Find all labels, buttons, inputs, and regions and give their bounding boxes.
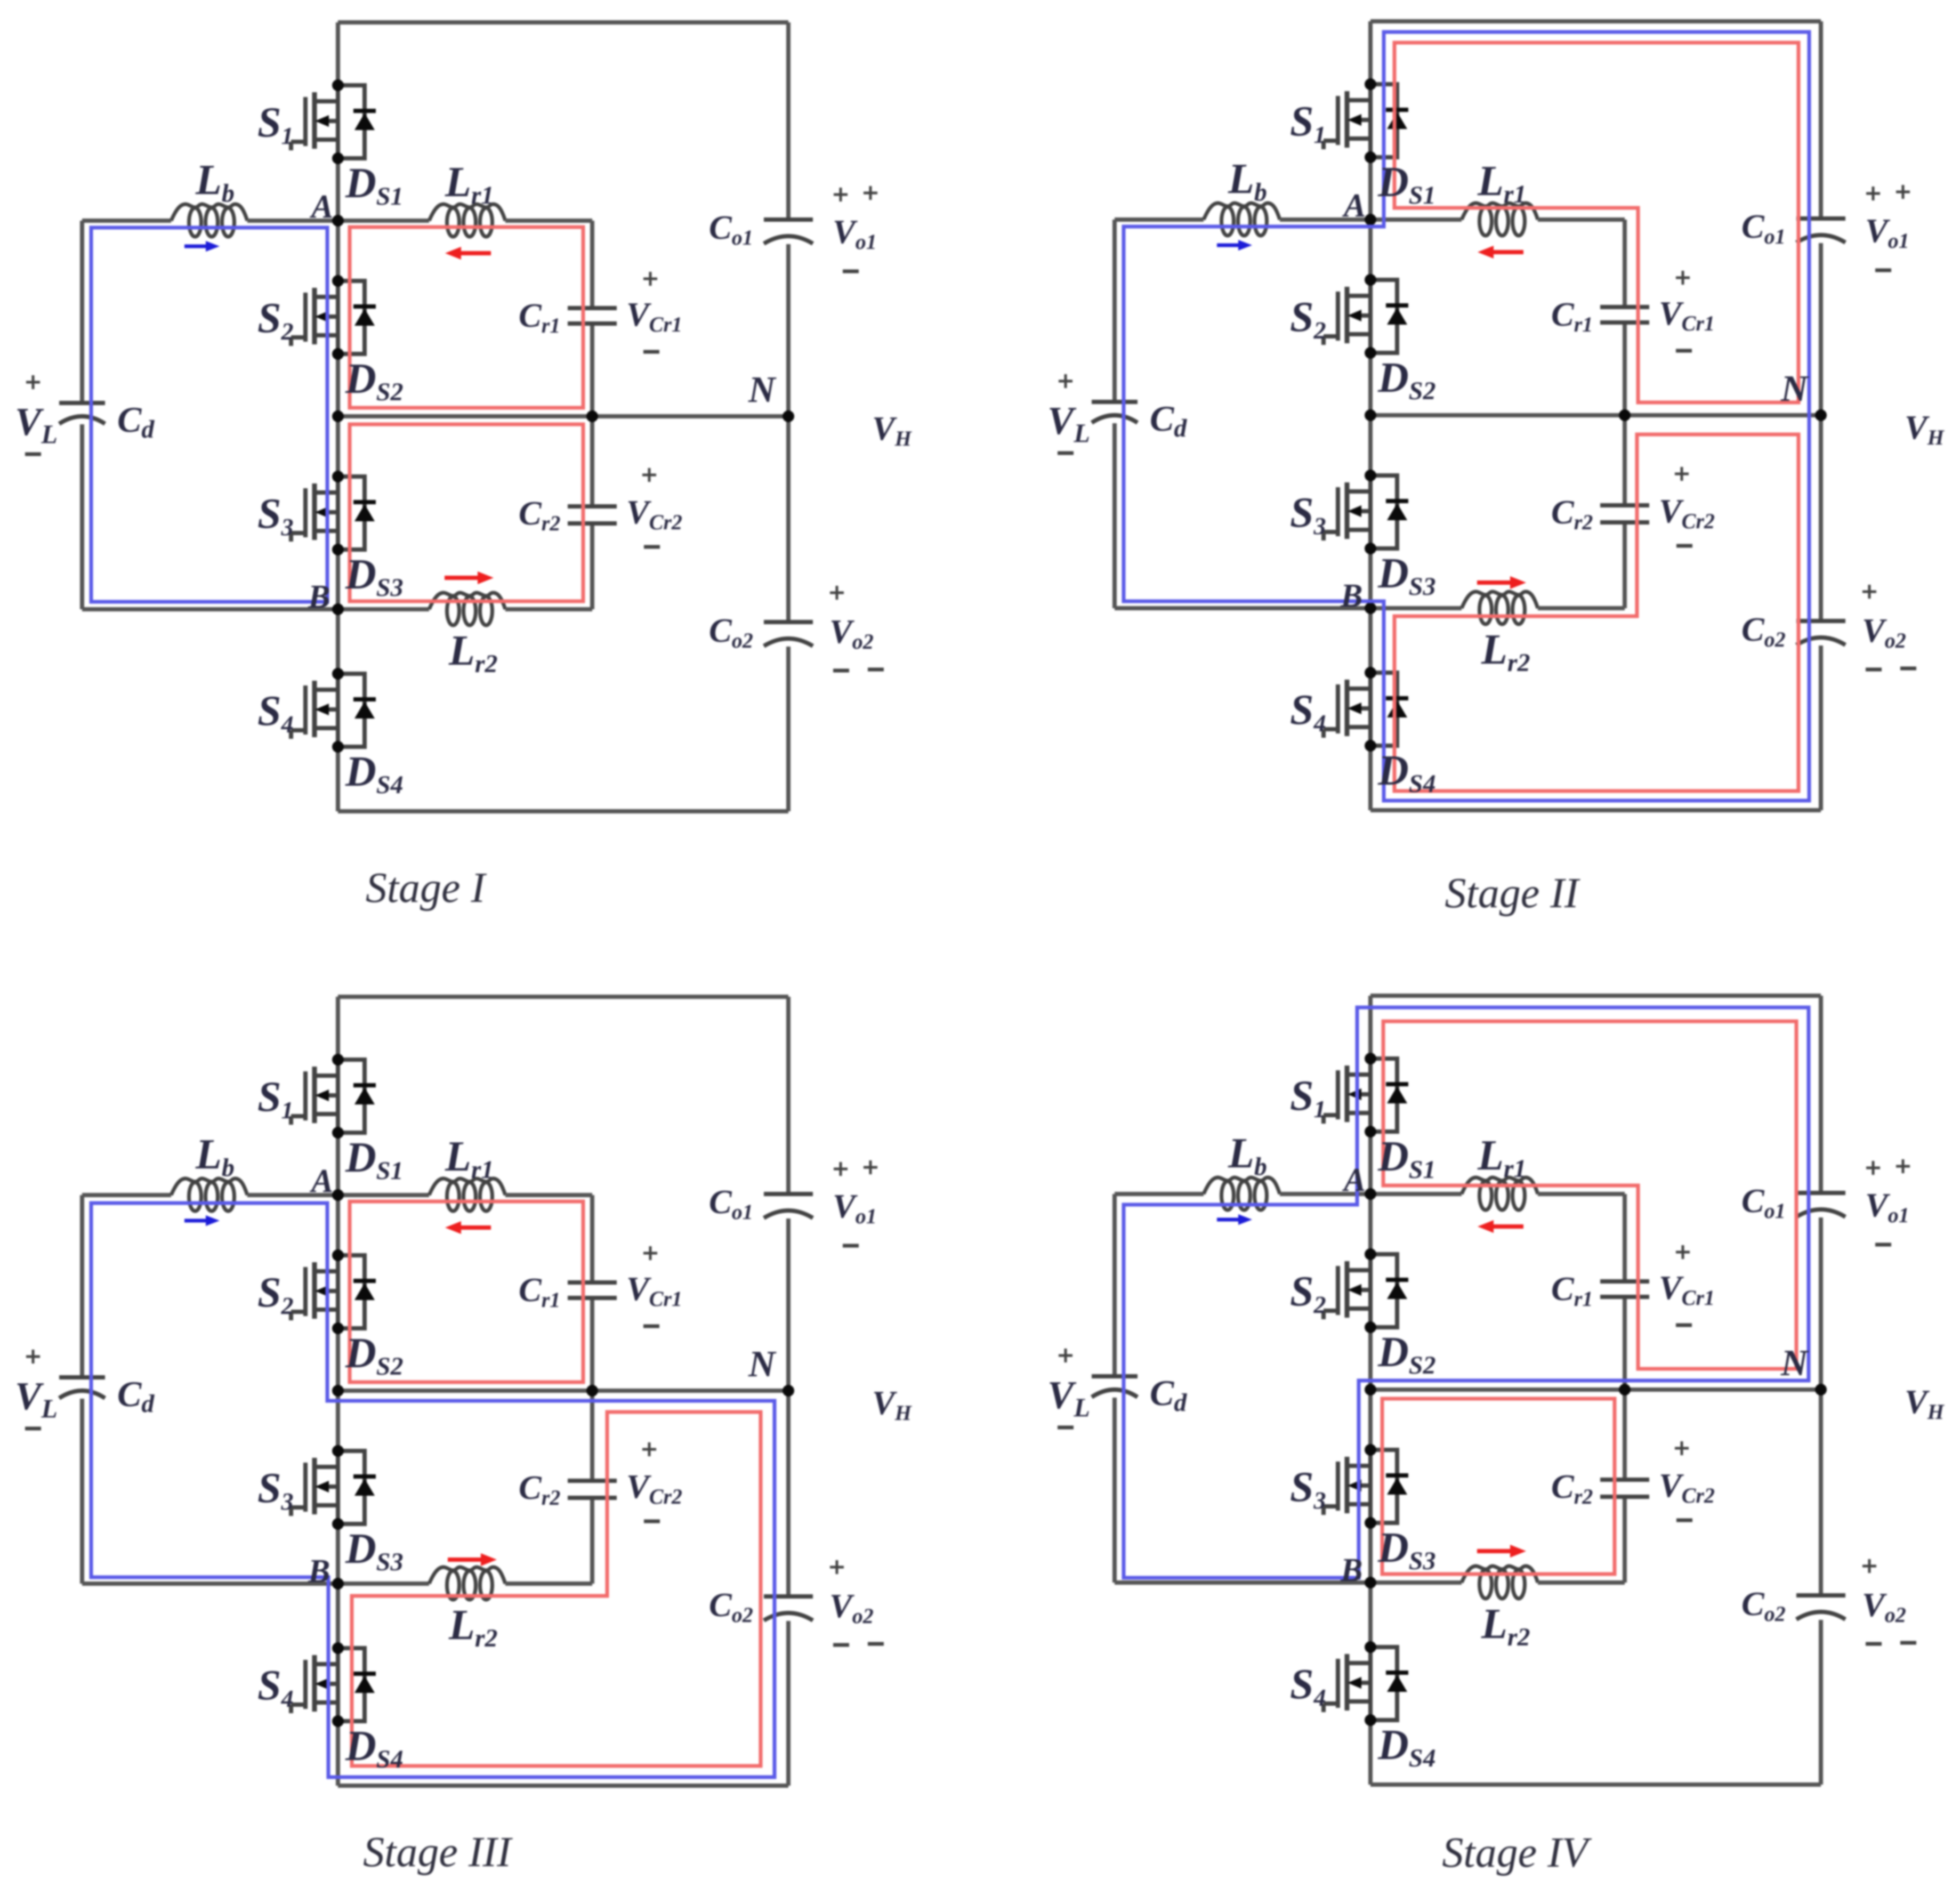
Stage I: main bus wire segments [336, 22, 340, 85]
Stage IV: top rail wire [1370, 994, 1821, 998]
body diode DS1 (Stage IV) [1370, 1059, 1408, 1132]
svg-text:A: A [1342, 1162, 1366, 1198]
Stage IV: output capacitor Co1 [1796, 1191, 1845, 1195]
Stage III: VH plus [864, 1160, 877, 1174]
Stage III: left bus wire VL (lower) [80, 1399, 84, 1584]
Stage IV: resonant inductor Lr1 [1462, 1177, 1538, 1194]
Stage IV: wire Cr2 to node N [1623, 1390, 1627, 1478]
Stage III: wire Cr2 to node N [590, 1391, 594, 1479]
Stage III: Vo1 plus [834, 1162, 848, 1176]
Stage I: node N right-bus junction [783, 410, 794, 422]
Stage I: VH minus [868, 668, 884, 672]
junction dot S1 (Stage II) drain [1365, 78, 1376, 90]
Stage I: right bus wire VH (upper) [786, 22, 791, 217]
Stage II: resonant capacitor Cr1 [1600, 305, 1649, 309]
svg-text:A: A [1342, 188, 1366, 224]
Stage II: VCr2 minus [1676, 544, 1692, 548]
Stage I: red resonant loop 2 [350, 424, 583, 601]
junction dot S2 (Stage IV) source [1365, 1321, 1376, 1333]
Stage III: wire Lb to node A [247, 1193, 338, 1197]
transistor S1 (Stage III) [291, 1060, 338, 1133]
svg-text:A: A [309, 1163, 333, 1199]
body diode DS1 (Stage I) [338, 85, 376, 158]
Stage III: right bus wire VH (upper) [786, 997, 791, 1192]
Stage IV: input capacitor Cd / source VL [1092, 1374, 1138, 1378]
Stage III: red resonant loop 1 [350, 1201, 583, 1382]
Stage IV: red arrow loop 1 [1494, 1224, 1523, 1229]
Stage III: red resonant loop 2 [352, 1412, 761, 1766]
transistor S3 (Stage II) [1324, 475, 1370, 548]
body diode DS4 (Stage III) [338, 1648, 376, 1721]
Stage I: VCr2 minus [644, 545, 660, 549]
junction dot S1 (Stage I) drain [332, 79, 344, 91]
transistor S2 (Stage IV) [1324, 1254, 1370, 1327]
junction dot S2 (Stage I) drain [332, 275, 344, 287]
Stage IV: left bus wire VL (lower) [1112, 1398, 1117, 1583]
Stage I: left bus wire VL (upper) [80, 221, 84, 401]
Stage II: Vo2 plus [1862, 585, 1876, 599]
Stage IV: VH minus [1900, 1641, 1916, 1645]
Stage IV: node N bus junction [1365, 1384, 1376, 1395]
Stage II: top rail wire [1370, 19, 1821, 23]
Stage I: blue current arrow [184, 245, 206, 248]
Stage II: VH minus [1900, 667, 1916, 671]
Stage IV: wire Lr2 to Cr2 [1538, 1580, 1625, 1585]
Stage I: wire Cr1 to node N [590, 326, 594, 416]
body diode DS3 (Stage IV) [1370, 1450, 1408, 1523]
Stage II: bottom rail wire [1370, 808, 1821, 812]
Stage I: red arrow loop 1 [461, 251, 491, 255]
Stage II: VL minus [1058, 451, 1074, 455]
Stage I: wire Lr2 to Cr2 [505, 607, 592, 611]
body diode DS4 (Stage II) [1370, 673, 1408, 746]
Stage II: wire Lr1 to Cr1 [1538, 217, 1625, 222]
Stage IV: node A junction [1365, 1188, 1376, 1200]
Stage I: right bus wire VH (middle) [786, 244, 791, 620]
Stage I: input capacitor Cd / source VL [59, 401, 105, 405]
Stage III: wire Lr1 to Cr1 [505, 1193, 592, 1197]
Stage II: VL plus [1059, 374, 1072, 388]
transistor S2 (Stage II) [1324, 280, 1370, 353]
Stage III: output capacitor Co2 [764, 1594, 813, 1599]
Stage IV: wire Cr1 to node N [1623, 1299, 1627, 1390]
Stage II: red arrow loop 2 [1477, 580, 1510, 585]
Stage IV: boost inductor Lb [1204, 1177, 1280, 1194]
junction dot S1 (Stage III) drain [332, 1054, 344, 1066]
Stage I: VCr1 plus [643, 272, 657, 286]
body diode DS2 (Stage III) [338, 1255, 376, 1328]
junction dot S3 (Stage II) drain [1365, 470, 1376, 481]
Stage II: blue input current loop [1124, 32, 1809, 801]
Stage III: output capacitor Co1 [764, 1192, 813, 1196]
Stage III: resonant inductor Lr1 [429, 1179, 505, 1195]
svg-text:Stage IV: Stage IV [1442, 1829, 1592, 1876]
Stage I: node N rail wire [338, 414, 788, 418]
transistor S4 (Stage II) [1324, 673, 1370, 746]
svg-text:N: N [1780, 1343, 1809, 1384]
Stage I: node A junction [332, 215, 344, 227]
Stage IV: right bus wire VH (lower) [1819, 1620, 1823, 1785]
Stage II: node N right-bus junction [1815, 409, 1827, 421]
Stage IV: node N Cr junction [1619, 1384, 1631, 1395]
svg-text:B: B [308, 1553, 330, 1590]
svg-text:Stage II: Stage II [1445, 870, 1580, 917]
junction dot S2 (Stage III) drain [332, 1249, 344, 1261]
Stage III: VCr1 minus [643, 1325, 659, 1328]
body diode DS3 (Stage I) [338, 477, 376, 550]
Stage I: VL plus [26, 375, 40, 389]
Stage IV: resonant capacitor Cr1 [1600, 1279, 1649, 1284]
junction dot S1 (Stage III) source [332, 1127, 344, 1139]
transistor S1 (Stage II) [1324, 84, 1370, 157]
Stage I: output capacitor Co1 [764, 217, 813, 222]
body diode DS1 (Stage II) [1370, 84, 1408, 157]
Stage III: wire node B to VL [82, 1582, 338, 1586]
Stage II: Vo1 plus [1866, 187, 1880, 200]
transistor S4 (Stage I) [291, 674, 338, 747]
junction dot S2 (Stage II) drain [1365, 274, 1376, 286]
Stage III: wire Lr2 to Cr2 [505, 1582, 592, 1586]
junction dot S4 (Stage IV) source [1365, 1714, 1376, 1726]
Stage I: wire node B to Lr2 [338, 607, 429, 611]
body diode DS2 (Stage II) [1370, 280, 1408, 353]
Stage II: node A junction [1365, 214, 1376, 225]
Stage II: node N Cr junction [1619, 409, 1631, 421]
Stage I: bottom rail wire [338, 809, 788, 813]
junction dot S2 (Stage III) source [332, 1322, 344, 1334]
svg-text:N: N [748, 1344, 777, 1385]
Stage II: output capacitor Co2 [1796, 619, 1845, 623]
Stage II: wire Cr2 to node N [1623, 415, 1627, 503]
Stage III: red arrow loop 2 [448, 1558, 481, 1562]
transistor S1 (Stage IV) [1324, 1059, 1370, 1132]
Stage III: Vo2 plus [830, 1560, 844, 1574]
Stage II: output capacitor Co1 [1796, 216, 1845, 221]
Stage III: blue input current loop [91, 1203, 775, 1777]
Stage I: node B junction [332, 603, 344, 615]
junction dot S2 (Stage I) source [332, 348, 344, 360]
Stage II: red arrow loop 1 [1494, 250, 1523, 254]
Stage IV: Vo2 plus [1862, 1559, 1876, 1573]
Stage II: wire node A to Lr1 [1370, 217, 1462, 222]
Stage III: resonant capacitor Cr1 [568, 1280, 617, 1285]
Stage III: node N bus junction [332, 1385, 344, 1397]
junction dot S3 (Stage II) source [1365, 543, 1376, 554]
junction dot S3 (Stage IV) source [1365, 1517, 1376, 1529]
junction dot S4 (Stage II) drain [1365, 667, 1376, 679]
Stage II: red resonant loop 1 [1394, 43, 1798, 402]
Stage II: input capacitor Cd / source VL [1092, 400, 1138, 404]
Stage I: wire Lb to node A [247, 219, 338, 223]
Stage I: left bus wire VL (lower) [80, 424, 84, 609]
Stage II: wire node B to VL [1115, 606, 1370, 610]
Stage II: blue current arrow [1217, 244, 1238, 247]
Stage I: resonant inductor Lr2 [429, 593, 505, 609]
body diode DS2 (Stage I) [338, 281, 376, 354]
Stage IV: VL plus [1059, 1349, 1072, 1362]
svg-text:N: N [748, 369, 777, 410]
Stage III: resonant inductor Lr2 [429, 1567, 505, 1584]
Stage I: wire VL to Lb [82, 219, 171, 223]
Stage IV: main bus wire segments [1368, 996, 1373, 1059]
Stage III: VL minus [25, 1427, 41, 1431]
transistor S4 (Stage III) [291, 1648, 338, 1721]
transistor S2 (Stage III) [291, 1255, 338, 1328]
body diode DS3 (Stage II) [1370, 475, 1408, 548]
svg-text:N: N [1780, 368, 1809, 409]
junction dot S4 (Stage III) source [332, 1715, 344, 1727]
Stage I: top rail wire [338, 20, 788, 25]
junction dot S1 (Stage II) source [1365, 151, 1376, 163]
Stage IV: red resonant loop 2 [1382, 1399, 1615, 1574]
Stage I: red arrow loop 2 [445, 576, 478, 580]
Stage II: left bus wire VL (upper) [1112, 220, 1117, 400]
Stage II: Vo2 minus [1866, 668, 1882, 672]
Stage IV: wire node B to Lr2 [1370, 1580, 1462, 1585]
junction dot S4 (Stage I) drain [332, 668, 344, 680]
Stage I: blue input current loop [91, 228, 327, 602]
junction dot S4 (Stage II) source [1365, 740, 1376, 752]
Stage IV: red resonant loop 1 [1383, 1021, 1796, 1369]
junction dot S2 (Stage IV) drain [1365, 1248, 1376, 1260]
Stage IV: output capacitor Co2 [1796, 1593, 1845, 1598]
junction dot S4 (Stage I) source [332, 741, 344, 753]
Stage II: VCr2 plus [1675, 467, 1689, 481]
Stage I: VCr2 plus [642, 468, 656, 482]
svg-text:A: A [309, 189, 333, 225]
Stage III: input capacitor Cd / source VL [59, 1375, 105, 1379]
junction dot S4 (Stage IV) drain [1365, 1641, 1376, 1653]
Stage IV: blue current arrow [1217, 1218, 1238, 1222]
Stage III: right bus wire VH (lower) [786, 1621, 791, 1786]
Stage II: right bus wire VH (upper) [1819, 21, 1823, 216]
Stage III: wire node A to Lr1 [338, 1193, 429, 1197]
junction dot S1 (Stage I) source [332, 152, 344, 164]
Stage IV: Vo1 minus [1875, 1243, 1891, 1247]
Stage I: resonant inductor Lr1 [429, 204, 505, 221]
Stage II: resonant capacitor Cr2 [1600, 503, 1649, 507]
Stage I: red resonant loop 1 [350, 227, 583, 408]
Stage III: wire Cr1 to node N [590, 1300, 594, 1391]
junction dot S1 (Stage IV) drain [1365, 1053, 1376, 1064]
Stage III: node N rail wire [338, 1389, 788, 1393]
Stage II: red resonant loop 2 [1394, 434, 1798, 791]
Stage II: VH plus [1896, 185, 1910, 199]
Stage IV: Vo2 minus [1866, 1642, 1882, 1646]
Stage I: VH plus [864, 186, 877, 200]
Stage I: resonant capacitor Cr1 [568, 306, 617, 310]
Stage IV: wire node B to VL [1115, 1580, 1370, 1585]
Stage IV: Vo1 plus [1866, 1161, 1880, 1175]
Stage IV: VCr1 plus [1676, 1245, 1690, 1259]
Stage IV: VCr2 minus [1676, 1519, 1692, 1522]
Stage II: node N bus junction [1365, 409, 1376, 421]
Stage II: wire node B to Lr2 [1370, 606, 1462, 610]
Stage IV: wire VL to Lb [1115, 1192, 1204, 1196]
Stage IV: left bus wire VL (upper) [1112, 1194, 1117, 1374]
Stage II: right bus wire VH (middle) [1819, 243, 1823, 619]
Stage IV: blue input current loop [1124, 1007, 1809, 1578]
Stage IV: VL minus [1058, 1426, 1074, 1430]
junction dot S4 (Stage III) drain [332, 1642, 344, 1654]
body diode DS2 (Stage IV) [1370, 1254, 1408, 1327]
Stage IV: red arrow loop 2 [1477, 1549, 1510, 1553]
Stage III: VH minus [868, 1642, 884, 1646]
Stage IV: VCr2 plus [1675, 1441, 1689, 1455]
Stage I: right bus wire VH (lower) [786, 647, 791, 811]
Stage III: bottom rail wire [338, 1784, 788, 1788]
Stage III: main bus wire segments [336, 997, 340, 1060]
Stage IV: right bus wire VH (upper) [1819, 996, 1823, 1191]
Stage I: VCr1 minus [643, 350, 659, 354]
Stage II: right bus wire VH (lower) [1819, 646, 1823, 810]
Stage I: Vo1 minus [843, 270, 859, 273]
Stage I: wire Cr2 to node N [590, 416, 594, 504]
Stage I: wire Lr1 to Cr1 [505, 219, 592, 223]
Stage III: red arrow loop 1 [461, 1225, 491, 1230]
transistor S3 (Stage III) [291, 1451, 338, 1524]
body diode DS1 (Stage III) [338, 1060, 376, 1133]
junction dot S3 (Stage III) source [332, 1518, 344, 1530]
Stage III: blue current arrow [184, 1219, 206, 1223]
Stage IV: VCr1 minus [1676, 1324, 1692, 1327]
svg-text:Stage I: Stage I [366, 865, 487, 911]
junction dot S2 (Stage II) source [1365, 347, 1376, 359]
Stage III: right bus wire VH (middle) [786, 1219, 791, 1594]
Stage I: boost inductor Lb [171, 204, 247, 221]
body diode DS4 (Stage IV) [1370, 1647, 1408, 1720]
Stage II: node B junction [1365, 602, 1376, 614]
Stage II: resonant inductor Lr1 [1462, 203, 1538, 220]
Stage III: left bus wire VL (upper) [80, 1195, 84, 1375]
Stage II: node N rail wire [1370, 413, 1821, 417]
Stage I: wire node B to VL [82, 607, 338, 611]
Stage I: output capacitor Co2 [764, 620, 813, 624]
Stage I: node N Cr junction [586, 410, 598, 422]
Stage II: wire Lr2 to Cr2 [1538, 606, 1625, 610]
Stage III: node N Cr junction [586, 1385, 598, 1397]
Stage II: wire Lb to node A [1280, 217, 1370, 222]
Stage II: Vo1 minus [1875, 269, 1891, 272]
Stage III: Vo1 minus [843, 1244, 859, 1248]
Stage I: Vo2 plus [830, 586, 844, 600]
Stage IV: node N right-bus junction [1815, 1384, 1827, 1395]
Stage IV: node B junction [1365, 1577, 1376, 1588]
transistor S1 (Stage I) [291, 85, 338, 158]
Stage III: top rail wire [338, 995, 788, 999]
Stage IV: resonant inductor Lr2 [1462, 1566, 1538, 1583]
transistor S2 (Stage I) [291, 281, 338, 354]
transistor S3 (Stage IV) [1324, 1450, 1370, 1523]
Stage IV: wire node A to Lr1 [1370, 1192, 1462, 1196]
Stage III: Vo2 minus [833, 1643, 849, 1647]
Stage II: wire Cr1 to node N [1623, 325, 1627, 415]
Stage IV: VH plus [1896, 1159, 1910, 1173]
body diode DS3 (Stage III) [338, 1451, 376, 1524]
svg-text:B: B [308, 579, 330, 615]
Stage III: node A junction [332, 1189, 344, 1201]
transistor S4 (Stage IV) [1324, 1647, 1370, 1720]
Stage III: node N right-bus junction [783, 1385, 794, 1397]
Stage I: wire node A to Lr1 [338, 219, 429, 223]
Stage II: boost inductor Lb [1204, 203, 1280, 220]
Stage IV: right bus wire VH (middle) [1819, 1217, 1823, 1593]
Stage III: wire node B to Lr2 [338, 1582, 429, 1586]
Stage II: wire VL to Lb [1115, 217, 1204, 222]
junction dot S3 (Stage I) drain [332, 471, 344, 482]
Stage III: boost inductor Lb [171, 1179, 247, 1195]
Stage III: VL plus [26, 1350, 40, 1363]
body diode DS4 (Stage I) [338, 674, 376, 747]
Stage I: Vo2 minus [833, 669, 849, 673]
Stage II: VCr1 plus [1676, 271, 1690, 285]
Stage IV: node N rail wire [1370, 1387, 1821, 1392]
junction dot S3 (Stage III) drain [332, 1445, 344, 1457]
Stage II: VCr1 minus [1676, 349, 1692, 353]
svg-text:B: B [1340, 1552, 1362, 1588]
Stage III: resonant capacitor Cr2 [568, 1479, 617, 1483]
Stage III: VCr2 minus [644, 1520, 660, 1523]
Stage I: resonant capacitor Cr2 [568, 504, 617, 509]
junction dot S1 (Stage IV) source [1365, 1126, 1376, 1137]
junction dot S3 (Stage IV) drain [1365, 1444, 1376, 1456]
Stage IV: wire Lr1 to Cr1 [1538, 1192, 1625, 1196]
Stage IV: resonant capacitor Cr2 [1600, 1478, 1649, 1482]
transistor S3 (Stage I) [291, 477, 338, 550]
Stage IV: bottom rail wire [1370, 1782, 1821, 1787]
Stage III: wire VL to Lb [82, 1193, 171, 1197]
Stage II: left bus wire VL (lower) [1112, 423, 1117, 608]
Stage II: main bus wire segments [1368, 21, 1373, 84]
Stage I: VL minus [25, 453, 41, 456]
Stage III: VCr1 plus [643, 1246, 657, 1260]
Stage IV: wire Lb to node A [1280, 1192, 1370, 1196]
svg-text:B: B [1340, 578, 1362, 614]
Stage III: VCr2 plus [642, 1442, 656, 1456]
Stage I: node N bus junction [332, 410, 344, 422]
Stage I: Vo1 plus [834, 188, 848, 201]
junction dot S3 (Stage I) source [332, 544, 344, 555]
svg-text:Stage III: Stage III [363, 1829, 513, 1876]
Stage III: node B junction [332, 1578, 344, 1590]
Stage II: resonant inductor Lr2 [1462, 592, 1538, 608]
